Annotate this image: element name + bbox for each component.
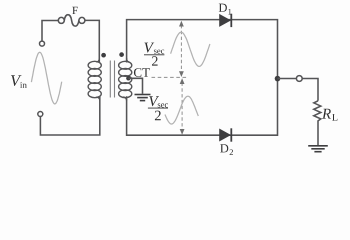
transformer secondary winding [119, 58, 132, 101]
label Vsec/2 upper [144, 43, 154, 53]
ground (load) [308, 146, 328, 152]
wire: junction to output terminal [278, 78, 297, 80]
label RL [322, 109, 331, 119]
dashed measure arrow lower (Vsec/2 span) [180, 78, 185, 135]
wire: output terminal to load RL [302, 79, 318, 101]
center tap node CT [126, 76, 131, 81]
diode D2 [220, 128, 232, 141]
diode D1 [220, 14, 232, 27]
phase dot secondary [119, 52, 124, 57]
resistor RL [314, 101, 321, 145]
transformer core lines [110, 61, 114, 98]
wire: top-left from input terminal up and right to fuse [42, 21, 58, 42]
label D1 [219, 4, 227, 12]
label D2 [220, 144, 228, 152]
fuse F [58, 15, 85, 26]
wire: bottom input terminal to transformer primary bottom [40, 96, 99, 135]
label CT [134, 68, 150, 77]
transformer primary winding [88, 58, 101, 101]
label Vsec/2 lower [149, 96, 159, 106]
wire: fuse to transformer primary top [85, 20, 99, 62]
upper Vsec/2 sine wave [171, 32, 210, 66]
junction node (rectifier output) [275, 76, 281, 82]
wire: secondary leads, top rail through D1, right side, bottom rail through D2 [127, 20, 278, 136]
terminal: output open circle [296, 76, 302, 82]
phase dot primary [101, 53, 106, 58]
label Vin [11, 75, 22, 86]
wire: center tap to ground [128, 78, 142, 94]
dashed measure arrow upper (Vsec/2 span) [179, 21, 184, 77]
label F [72, 7, 77, 14]
ground (center tap) [135, 95, 151, 101]
terminal: top input open circle [40, 41, 45, 46]
terminal: bottom input open circle [38, 112, 43, 117]
lower Vsec/2 sine wave [165, 96, 198, 124]
dashed line: center-tap reference [152, 76, 188, 78]
Vin source sine wave [31, 52, 61, 104]
